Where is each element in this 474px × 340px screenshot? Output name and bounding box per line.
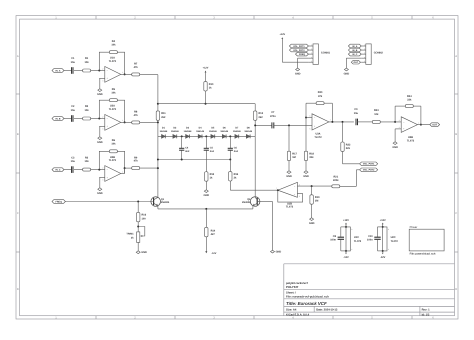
wire R17 to ground [288, 161, 290, 171]
svg-text:IN_A: IN_A [56, 69, 61, 72]
svg-text:U2C: U2C [391, 236, 396, 239]
resistor R16 100 [137, 212, 147, 221]
node stage1 inverting input [98, 70, 100, 72]
capacitor C3 10u [71, 156, 76, 173]
svg-text:Sheet: /: Sheet: / [286, 292, 296, 295]
svg-text:10u: 10u [354, 112, 359, 115]
node emitter bus to R14 [205, 208, 207, 210]
wire R14 to -12V [205, 237, 207, 252]
title block sheet/file text [286, 292, 329, 299]
ground below U2B [97, 188, 103, 195]
wire U1A pin3 to ground [99, 78, 105, 88]
wire U3A inverting to R18 [305, 118, 307, 152]
wire U2B pin3 to ground [99, 177, 105, 187]
svg-text:GND: GND [97, 93, 103, 96]
power -12V below R14 [205, 251, 217, 255]
node R17 tap [288, 124, 290, 126]
diode D4 1N4148 [196, 127, 204, 139]
svg-text:GND: GND [276, 251, 282, 254]
wire ladder return line [158, 159, 230, 161]
input global label FREQ [52, 200, 65, 204]
svg-text:C: C [455, 212, 457, 215]
power +12V at CONN1 [279, 33, 285, 39]
svg-text:-12V: -12V [343, 256, 349, 259]
wire bias right branch [254, 104, 256, 111]
wire R3 to op-amp U2B pin2 [91, 169, 105, 171]
diode D3 1N4148 [184, 127, 192, 139]
node R22 tap [342, 121, 344, 123]
resistor R9 47k [132, 156, 140, 169]
wire U3A -input [306, 117, 312, 119]
svg-text:R24: R24 [407, 95, 412, 98]
resistor R4 10k feedback [109, 40, 117, 54]
capacitor C2 10u [71, 105, 76, 122]
svg-text:22k: 22k [346, 147, 351, 150]
wire U2A output [121, 121, 132, 123]
svg-text:A: A [455, 55, 457, 58]
trimmer RV1 2k [126, 227, 144, 243]
resistor R13 1k [205, 172, 215, 181]
wire R1 to op-amp U1A pin2 [91, 70, 105, 72]
svg-text:47k: 47k [134, 66, 139, 69]
node U1B output [277, 189, 279, 191]
svg-text:TL072: TL072 [391, 240, 399, 243]
svg-text:Date: 2024-10-13: Date: 2024-10-13 [316, 309, 338, 312]
resistor R18 33k [304, 151, 314, 160]
ground below R13 [204, 190, 210, 197]
wire U1B feedback loop [278, 190, 303, 202]
wire U1A output [121, 73, 132, 75]
svg-text:File: power.kicad_sch: File: power.kicad_sch [410, 253, 436, 256]
svg-text:KiCad E.D.A. 8.0.4: KiCad E.D.A. 8.0.4 [286, 313, 310, 316]
svg-text:R21: R21 [334, 175, 339, 178]
wire C5 to R13 [205, 150, 207, 172]
ground below U2A [97, 137, 103, 144]
wire R15 to feedback line [230, 181, 277, 190]
output global label OUT [430, 123, 440, 127]
svg-text:IN_A: IN_A [352, 45, 357, 48]
svg-text:1N4148: 1N4148 [244, 130, 252, 133]
svg-text:GND: GND [309, 222, 315, 225]
resistor R6 10k feedback [109, 139, 117, 153]
svg-text:2: 2 [102, 68, 103, 71]
transistor Q2 2N3904 [242, 197, 260, 207]
svg-text:GND: GND [97, 192, 103, 195]
op-amp U1B TL072 (feedback buffer) [276, 182, 300, 208]
svg-text:GND: GND [204, 194, 210, 197]
title block box and rules [284, 264, 455, 316]
svg-text:TRIM1: TRIM1 [126, 233, 134, 236]
wire to R19 [311, 186, 313, 195]
ground below R17 [286, 171, 292, 178]
node stage2 inverting input [98, 118, 100, 120]
wire summing bus vertical upper [157, 75, 159, 111]
wire to R22 [342, 122, 344, 142]
hierarchical sheet Power [409, 226, 444, 256]
svg-text:2k2: 2k2 [259, 116, 264, 119]
svg-text:GND: GND [295, 72, 301, 75]
svg-text:1N4148: 1N4148 [160, 130, 168, 133]
svg-text:10k: 10k [85, 160, 90, 163]
global label IN_A at CONN2 [348, 44, 361, 48]
wire C2 to R2 [74, 118, 83, 120]
frame column ticks [96, 16, 412, 319]
svg-text:TL072: TL072 [407, 139, 415, 142]
svg-text:10k: 10k [85, 61, 90, 64]
connector CONN2 [361, 44, 383, 65]
input global label IN_B [52, 117, 64, 121]
wire CONN1 pin5 to +12V [282, 39, 308, 62]
wire Q2 base to ground [257, 202, 272, 251]
svg-text:C: C [17, 212, 19, 215]
wire U3B +input to ground [395, 129, 401, 142]
svg-text:POLYKIT: POLYKIT [286, 285, 299, 289]
svg-text:10u: 10u [71, 61, 76, 64]
resistor R21 220k [332, 175, 340, 187]
svg-text:-12V: -12V [211, 252, 216, 255]
wire R22 to VOL_POT1 [343, 151, 360, 163]
power +12V for bias [203, 67, 209, 82]
svg-text:U1C: U1C [354, 236, 359, 239]
wire R24 to output [413, 106, 421, 125]
title block comment text [286, 282, 308, 289]
svg-text:1: 1 [122, 71, 123, 74]
svg-text:TL072: TL072 [109, 108, 117, 111]
title block size/date row [286, 309, 430, 312]
svg-text:CONN2: CONN2 [374, 51, 384, 54]
svg-text:R17: R17 [292, 153, 297, 156]
svg-text:C10: C10 [368, 235, 373, 238]
ground below CONN2 [344, 68, 350, 75]
wire U3A feedback left [305, 103, 307, 117]
svg-text:220k: 220k [333, 179, 339, 182]
svg-text:2N3904: 2N3904 [242, 201, 251, 204]
svg-text:TL072: TL072 [314, 136, 322, 139]
svg-text:VOL_POT1: VOL_POT1 [363, 163, 375, 166]
svg-text:22k: 22k [407, 99, 412, 102]
global label FREQ at CONN1 [296, 52, 309, 56]
node ladder tap 3 [229, 135, 231, 137]
wire U1B +input net [297, 185, 332, 187]
svg-text:VOL_POT2: VOL_POT2 [293, 49, 305, 52]
op-amp U1A TL072 [102, 57, 123, 83]
wire C4 to return line [181, 150, 183, 159]
node ladder tap 1 [181, 135, 183, 137]
resistor R14 4k7 [205, 227, 216, 236]
wire IN_C to C3 [64, 169, 72, 171]
node FREQ/R16 [137, 201, 139, 203]
svg-text:TL072: TL072 [109, 60, 117, 63]
global label OUT at CONN2 [351, 60, 361, 64]
svg-text:Rev: 1: Rev: 1 [422, 309, 431, 312]
diode D7 1N4148 [233, 127, 241, 139]
capacitor C10 100n / U2 power [367, 219, 398, 259]
op-amp U2B TL072 [102, 156, 123, 182]
svg-text:R16: R16 [142, 214, 147, 217]
svg-text:2n2: 2n2 [234, 150, 239, 153]
global label IN_C at CONN2 [348, 52, 361, 56]
svg-text:R12: R12 [259, 112, 264, 115]
svg-text:R11: R11 [161, 112, 166, 115]
node stage3 output [124, 167, 126, 169]
svg-text:3: 3 [102, 79, 103, 82]
capacitor C7 470n [270, 111, 276, 128]
resistor R10 1k [204, 82, 214, 91]
wire trimmer to ground [137, 242, 139, 250]
node U3A output fb [331, 121, 333, 123]
wire U3A feedback right [331, 103, 333, 122]
capacitor C1 10u [71, 57, 76, 74]
ground below CONN1 [295, 68, 301, 75]
svg-text:TL072: TL072 [354, 240, 362, 243]
node return at bus [157, 159, 159, 161]
node bus stage3 tap [157, 167, 159, 169]
svg-text:10u: 10u [71, 160, 76, 163]
title block title [286, 301, 327, 306]
svg-text:2: 2 [102, 116, 103, 119]
svg-text:1: 1 [122, 119, 123, 122]
resistor R17 1k [287, 151, 297, 160]
svg-text:100n: 100n [367, 239, 373, 242]
svg-text:Id: 1/2: Id: 1/2 [422, 313, 430, 316]
op-amp U2A TL072 [102, 105, 123, 131]
svg-text:FREQ: FREQ [56, 200, 63, 203]
svg-text:+12V: +12V [380, 219, 386, 222]
resistor R19 1M [310, 195, 320, 204]
svg-text:File: eurorack-vcf-pcb.kicad_s: File: eurorack-vcf-pcb.kicad_sch [286, 296, 329, 299]
wire U3B feedback [395, 106, 405, 122]
wire IN_B to C2 [64, 118, 72, 120]
svg-text:R20: R20 [318, 91, 323, 94]
svg-text:R23: R23 [374, 109, 379, 112]
svg-text:Size: A4: Size: A4 [286, 309, 297, 312]
ground below R19 [309, 218, 315, 225]
svg-text:+12V: +12V [343, 219, 349, 222]
wire CONN1 pin4 to ground [298, 58, 309, 68]
svg-text:1N4148: 1N4148 [184, 130, 192, 133]
svg-text:B: B [455, 133, 457, 136]
svg-text:Title: Eurorack VCF: Title: Eurorack VCF [286, 301, 327, 306]
node U3B input [394, 121, 396, 123]
wire C1 to R1 [74, 70, 83, 72]
svg-text:CONN1: CONN1 [321, 51, 331, 54]
svg-text:100n: 100n [330, 239, 336, 242]
svg-text:R10: R10 [209, 83, 214, 86]
wire U3B output [418, 124, 430, 126]
svg-text:VOL_POT2: VOL_POT2 [363, 169, 375, 172]
diode D6 1N4148 [220, 127, 228, 139]
svg-text:IN_C: IN_C [56, 168, 61, 171]
wire R9 to summing bus [140, 167, 158, 169]
frame column digits [55, 17, 434, 320]
resistor R11 2k2 [156, 111, 166, 120]
svg-text:Power: Power [410, 226, 418, 229]
node R19 tap [311, 185, 313, 187]
svg-text:+12V: +12V [279, 33, 285, 36]
wire U2B output [121, 168, 132, 173]
capacitor C6 2n2 [228, 147, 239, 153]
wire to R16 [137, 202, 139, 213]
resistor R8 47k [132, 111, 140, 124]
svg-text:100: 100 [142, 217, 147, 220]
svg-text:1N4148: 1N4148 [171, 130, 179, 133]
wire Q2 collector to ladder [254, 136, 256, 197]
svg-text:GND: GND [286, 175, 292, 178]
node U3A inverting [305, 117, 307, 119]
svg-text:TL072: TL072 [286, 206, 294, 209]
svg-text:GND: GND [97, 141, 103, 144]
svg-text:3: 3 [102, 127, 103, 130]
global label VOL_POT1 [360, 162, 378, 166]
ground below trimmer [136, 251, 147, 254]
wire to R14 [205, 209, 207, 228]
connector CONN1 [308, 44, 330, 65]
wire C7 net from ladder [255, 124, 272, 126]
svg-text:IN_B: IN_B [56, 117, 61, 120]
svg-text:2n2: 2n2 [185, 150, 190, 153]
resistor R15 2k [229, 172, 239, 181]
svg-text:OUT: OUT [432, 123, 437, 126]
node stage1 output [124, 73, 126, 75]
resistor R24 22k feedback [405, 95, 413, 108]
ground below U3B [392, 142, 398, 149]
resistor R1 10k [83, 57, 91, 72]
svg-text:R19: R19 [315, 196, 320, 199]
svg-text:10k: 10k [85, 109, 90, 112]
wire R23 to U3B [380, 121, 401, 123]
capacitor C9 10u [354, 108, 359, 125]
wire emitter bus [158, 208, 253, 210]
node ladder right C7 tap [254, 124, 256, 126]
wire R8 to summing bus [140, 121, 158, 123]
wire feedback loop stage3 [99, 151, 124, 173]
svg-text:GND: GND [392, 146, 398, 149]
frame row ticks [16, 94, 458, 252]
node ladder tap 2 [205, 135, 207, 137]
node U3B output [420, 124, 422, 126]
svg-text:1M: 1M [315, 200, 318, 203]
resistor R7 47k [132, 63, 140, 76]
diode D1 1N4148 [160, 127, 168, 139]
capacitor C5 2n2 [204, 147, 215, 153]
svg-text:33k: 33k [309, 156, 314, 159]
svg-text:10k: 10k [111, 44, 116, 47]
wire C3 to R3 [74, 169, 83, 171]
wire bus vertical lower [157, 120, 159, 197]
capacitor C8 100n / U1 power [330, 219, 361, 259]
wire C9 to R23 [357, 121, 372, 123]
svg-text:R14: R14 [211, 229, 216, 232]
wire Q1 base [65, 201, 153, 203]
wire R10 to bias net [205, 91, 207, 104]
svg-text:D: D [17, 288, 19, 291]
node bus at +12V net [157, 103, 159, 105]
wire Q1 emitter [157, 206, 159, 209]
svg-text:FREQ: FREQ [299, 53, 305, 56]
global label VOL_POT2 at CONN1 [289, 48, 308, 52]
svg-text:A: A [17, 55, 19, 58]
svg-text:10k: 10k [111, 92, 116, 95]
svg-text:IN_C: IN_C [352, 53, 357, 56]
diode D5 1N4148 [209, 127, 217, 139]
wire C7 to U3A +input [274, 124, 312, 126]
wire R7 to summing bus [140, 73, 158, 75]
svg-text:10u: 10u [71, 109, 76, 112]
svg-text:1N4148: 1N4148 [233, 130, 241, 133]
wire tap1 to C4 [181, 136, 183, 148]
wire R2 to op-amp U2A pin2 [91, 118, 105, 120]
wire R18 to ground [305, 161, 307, 171]
wire tap2 to C5 [205, 136, 207, 148]
node bus stage2 tap [157, 121, 159, 123]
wire C6 to return line [229, 150, 231, 159]
resistor R2 10k [83, 105, 91, 120]
svg-text:1N4148: 1N4148 [196, 130, 204, 133]
global label VOL_POT1 at CONN1 [289, 44, 308, 48]
node stage2 output [124, 121, 126, 123]
wire IN_A to C1 [64, 70, 72, 72]
svg-text:3: 3 [102, 178, 103, 181]
ground below R18 [303, 171, 309, 178]
global label VOL_POT2 [360, 168, 378, 172]
svg-text:47k: 47k [134, 160, 139, 163]
resistor R22 100k [341, 142, 351, 151]
diode D8 1N4148 [244, 127, 252, 139]
wire C6 node to R15 [229, 160, 231, 172]
svg-text:D: D [455, 288, 457, 291]
capacitor C4 2n2 [179, 147, 190, 153]
resistor R5 10k feedback [109, 88, 117, 102]
svg-text:2: 2 [102, 167, 103, 170]
svg-text:VOL_POT1: VOL_POT1 [293, 45, 305, 48]
svg-text:2k2: 2k2 [161, 116, 166, 119]
node return at C4 [181, 159, 183, 161]
op-amp U3A TL072 [310, 114, 331, 139]
input global label IN_A [52, 69, 64, 73]
ground below U1A [97, 89, 103, 96]
svg-text:GND: GND [344, 72, 350, 75]
wire R21 to VOL_POT2 [340, 170, 360, 187]
svg-text:1N4148: 1N4148 [209, 130, 217, 133]
svg-text:-12V: -12V [380, 256, 386, 259]
wire R12 to ladder right [254, 120, 256, 136]
svg-text:47k: 47k [134, 114, 139, 117]
svg-text:2N3904: 2N3904 [161, 201, 170, 204]
svg-text:1M: 1M [292, 156, 295, 159]
svg-text:+12V: +12V [203, 67, 209, 70]
wire feedback loop stage2 [99, 100, 124, 122]
wire bias net horizontal [158, 103, 255, 105]
ground below Q2 base [271, 250, 282, 253]
svg-text:GND: GND [141, 251, 147, 254]
transistor Q1 2N3904 [151, 197, 170, 207]
resistor R23 10k [372, 109, 380, 123]
wire to R17 [288, 125, 290, 151]
resistor R3 10k [83, 156, 91, 171]
global label IN_B at CONN2 [348, 48, 361, 52]
svg-text:10k: 10k [111, 143, 116, 146]
wire tap3 to C6 [229, 136, 231, 148]
wire U2A pin3 to ground [99, 126, 105, 136]
wire R16 to trimmer [137, 222, 139, 232]
wire Q2 emitter [252, 206, 254, 209]
svg-text:B: B [17, 133, 19, 136]
node stage3 inverting input [98, 169, 100, 171]
svg-text:4k7: 4k7 [211, 233, 216, 236]
resistor R12 2k2 [254, 111, 264, 120]
diode D2 1N4148 [171, 127, 179, 139]
svg-text:GND: GND [303, 175, 309, 178]
